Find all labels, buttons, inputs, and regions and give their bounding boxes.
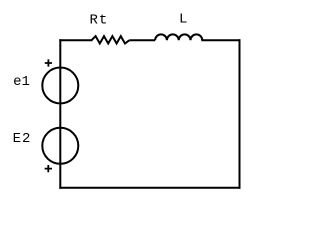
svg-text:Rt: Rt xyxy=(90,13,109,29)
wire right vertical xyxy=(239,40,241,187)
svg-text:E2: E2 xyxy=(13,131,32,147)
wire top-left horizontal segment xyxy=(60,39,91,41)
inductor L xyxy=(155,34,202,40)
svg-text:L: L xyxy=(179,12,187,28)
wire bottom horizontal xyxy=(60,187,239,189)
wire left vertical (through sources) xyxy=(59,40,61,187)
polarity plus of E2 xyxy=(45,165,52,172)
polarity plus of e1 xyxy=(45,59,52,66)
source e1 xyxy=(42,68,78,104)
wire between resistor and inductor xyxy=(129,39,155,41)
source E2 xyxy=(42,128,78,164)
wire top-right segment xyxy=(202,39,239,41)
resistor Rt xyxy=(91,36,129,43)
svg-text:e1: e1 xyxy=(13,74,30,90)
